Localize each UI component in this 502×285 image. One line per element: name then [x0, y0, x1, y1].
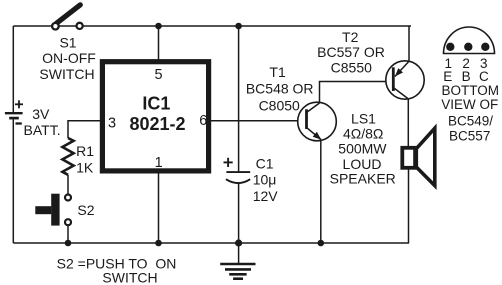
svg-text:T1: T1	[269, 64, 286, 80]
svg-text:B: B	[462, 69, 471, 84]
svg-text:C8550: C8550	[331, 60, 372, 76]
svg-text:C8050: C8050	[259, 97, 300, 113]
svg-text:5: 5	[155, 67, 163, 83]
svg-text:SPEAKER: SPEAKER	[330, 171, 396, 187]
svg-text:BC549/: BC549/	[448, 113, 493, 128]
svg-text:500MW: 500MW	[338, 141, 387, 157]
svg-text:S1: S1	[59, 35, 76, 51]
svg-text:12V: 12V	[253, 188, 279, 204]
svg-text:BC557: BC557	[449, 129, 490, 144]
svg-text:BC548 OR: BC548 OR	[246, 81, 314, 97]
svg-text:C: C	[479, 69, 489, 84]
svg-text:T2: T2	[342, 29, 359, 45]
svg-text:ON-OFF: ON-OFF	[42, 50, 96, 66]
svg-text:S2: S2	[77, 202, 94, 218]
svg-text:4Ω/8Ω: 4Ω/8Ω	[343, 126, 383, 142]
svg-text:C1: C1	[256, 155, 274, 171]
svg-text:IC1: IC1	[142, 94, 170, 114]
svg-text:BC557 OR: BC557 OR	[317, 44, 385, 60]
svg-text:BOTTOM: BOTTOM	[441, 83, 499, 98]
svg-text:8021-2: 8021-2	[129, 114, 185, 134]
svg-text:SWITCH: SWITCH	[102, 270, 157, 285]
svg-text:SWITCH: SWITCH	[39, 66, 94, 82]
svg-text:R1: R1	[76, 143, 94, 159]
svg-text:E: E	[443, 69, 452, 84]
svg-text:LS1: LS1	[351, 110, 376, 126]
svg-text:3V: 3V	[32, 106, 50, 122]
svg-text:1: 1	[155, 155, 163, 171]
svg-text:3: 3	[108, 115, 116, 131]
svg-text:6: 6	[199, 113, 207, 129]
svg-text:10μ: 10μ	[253, 172, 277, 188]
svg-text:1K: 1K	[76, 159, 94, 175]
svg-text:VIEW OF: VIEW OF	[441, 97, 498, 112]
svg-text:BATT.: BATT.	[24, 122, 61, 138]
